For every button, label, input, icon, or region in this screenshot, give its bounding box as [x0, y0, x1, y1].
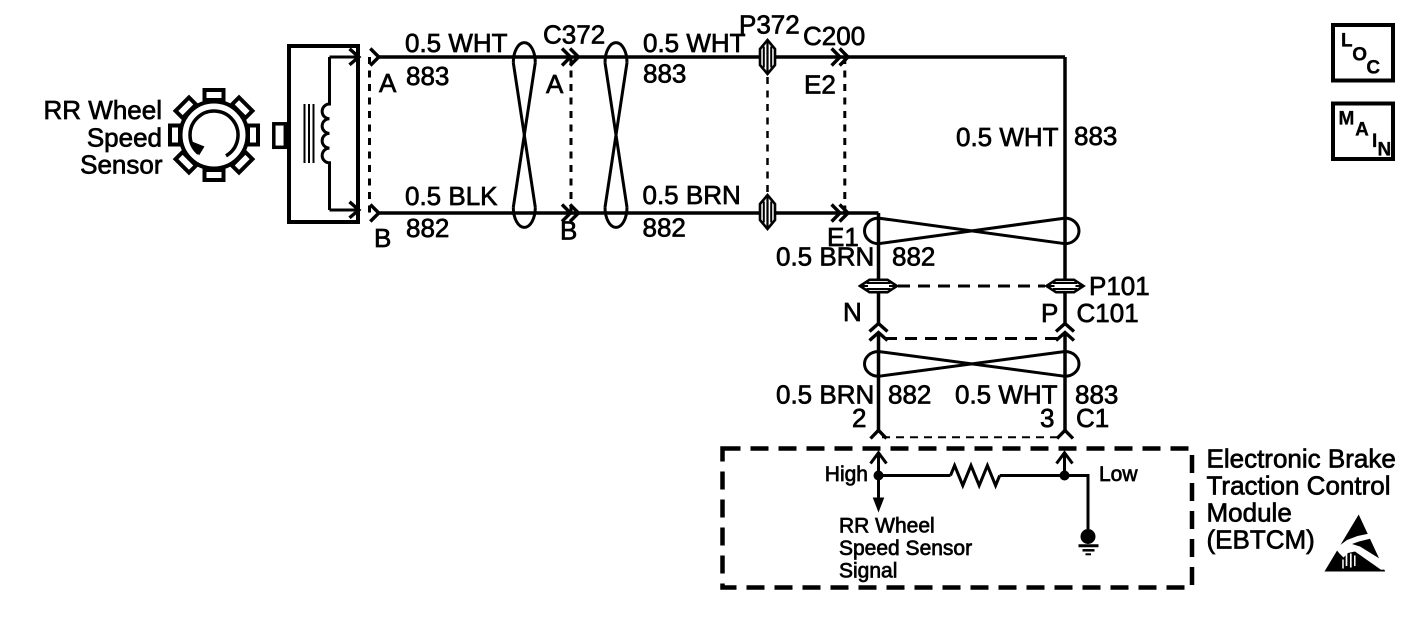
wire N to pin 2 — [877, 333, 881, 431]
svg-text:Sensor: Sensor — [80, 150, 163, 180]
twisted pair symbol 2 — [605, 43, 627, 228]
wire A: 0.5 WHT 883 — [379, 55, 1065, 59]
twisted pair symbol 4 (horizontal) — [865, 352, 1080, 377]
svg-text:882: 882 — [888, 380, 931, 410]
terminal N chevrons — [870, 324, 888, 341]
svg-text:B: B — [560, 216, 577, 246]
wire High to resistor — [879, 474, 951, 477]
svg-text:I: I — [1372, 131, 1377, 152]
terminal P chevrons — [1056, 324, 1074, 341]
ESD warning symbol — [1325, 515, 1390, 572]
wire below P101 right — [1063, 293, 1067, 324]
svg-text:P372: P372 — [739, 10, 800, 40]
svg-text:P: P — [1041, 298, 1058, 328]
svg-text:882: 882 — [892, 242, 935, 272]
wire B: 0.5 BLK 882 — [379, 211, 879, 215]
svg-text:E2: E2 — [804, 70, 836, 100]
connector C200 chevrons — [832, 49, 848, 66]
sensor connector tab — [274, 124, 286, 148]
svg-text:2: 2 — [852, 403, 866, 433]
svg-text:A: A — [379, 68, 397, 98]
coil winding — [322, 57, 329, 210]
connector P101 dashed line — [898, 285, 1045, 288]
coil bottom lead with arrow — [330, 202, 359, 218]
EBTCM pin 3 entry arrow — [1057, 453, 1073, 476]
terminal A chevron — [370, 49, 379, 66]
label Electronic Brake Traction Control Module (EBTCM) — [1207, 444, 1396, 555]
svg-text:N: N — [1378, 139, 1392, 160]
svg-text:Speed: Speed — [87, 123, 162, 153]
pin 3 chevron — [1057, 430, 1073, 438]
svg-text:N: N — [843, 297, 862, 327]
ground symbol — [1079, 529, 1099, 554]
wire P to pin 3 — [1063, 333, 1067, 431]
sensor tone ring (toothed wheel) — [170, 90, 258, 180]
wire: right vertical 0.5 WHT 883 — [1063, 57, 1067, 280]
EBTCM pin 2 entry arrow — [871, 453, 887, 476]
terminal B chevron — [370, 205, 379, 222]
wire Low to ground — [1065, 476, 1089, 530]
coil top lead with arrow — [330, 49, 359, 65]
svg-text:0.5 BLK: 0.5 BLK — [405, 181, 498, 211]
svg-text:Module: Module — [1207, 498, 1292, 528]
rotation arrow arc — [190, 111, 238, 156]
label RR Wheel Speed Sensor Signal — [839, 515, 972, 583]
dashed harness top line — [885, 337, 1058, 340]
RR Wheel Speed Sensor label — [44, 95, 163, 180]
svg-text:RR Wheel: RR Wheel — [839, 515, 935, 538]
dashed harness bottom line — [882, 436, 1061, 438]
svg-text:0.5 BRN: 0.5 BRN — [776, 242, 874, 272]
svg-text:0.5 WHT: 0.5 WHT — [643, 28, 746, 58]
svg-text:882: 882 — [643, 213, 686, 243]
wire: left vertical drop from E1 — [877, 213, 881, 280]
connector P372 dashed line — [766, 77, 769, 192]
connector C372 chevrons top — [562, 49, 579, 66]
pin 2 chevron — [871, 430, 887, 438]
node Low junction dot — [1060, 471, 1070, 481]
svg-text:Electronic Brake: Electronic Brake — [1207, 444, 1396, 474]
svg-text:Low: Low — [1099, 463, 1138, 486]
connector P101 left symbol — [860, 280, 897, 292]
svg-text:A: A — [546, 69, 564, 99]
twisted pair symbol 1 — [513, 43, 535, 228]
connector E1 chevrons — [832, 205, 848, 222]
svg-text:C: C — [1366, 57, 1380, 78]
svg-text:RR Wheel: RR Wheel — [44, 95, 162, 125]
svg-text:0.5 WHT: 0.5 WHT — [956, 122, 1059, 152]
sensor box — [289, 46, 358, 222]
svg-text:C372: C372 — [543, 20, 605, 50]
svg-text:C200: C200 — [803, 21, 865, 51]
twisted pair symbol 3 (horizontal) — [865, 218, 1080, 244]
wire resistor to Low — [1000, 474, 1065, 477]
svg-text:(EBTCM): (EBTCM) — [1207, 525, 1315, 555]
svg-text:O: O — [1352, 45, 1367, 66]
pass-through connector P372 top symbol — [760, 40, 775, 75]
svg-text:C101: C101 — [1077, 298, 1139, 328]
svg-text:L: L — [1341, 31, 1353, 52]
svg-text:883: 883 — [1074, 121, 1117, 151]
sensor connector dashed line — [368, 57, 371, 213]
svg-text:883: 883 — [406, 61, 449, 91]
connector C372 chevrons bottom — [562, 205, 579, 222]
rotation arrowhead — [192, 142, 205, 156]
EBTCM dashed box — [723, 449, 1193, 588]
svg-text:Speed Sensor: Speed Sensor — [839, 537, 972, 560]
svg-text:0.5 WHT: 0.5 WHT — [405, 28, 508, 58]
svg-text:0.5 BRN: 0.5 BRN — [643, 180, 741, 210]
svg-text:Signal: Signal — [839, 560, 897, 583]
svg-text:C1: C1 — [1076, 403, 1109, 433]
svg-text:M: M — [1339, 108, 1355, 129]
svg-text:A: A — [1355, 120, 1369, 141]
svg-text:High: High — [825, 463, 868, 486]
svg-text:B: B — [374, 223, 391, 253]
pass-through connector P372 bottom symbol — [760, 195, 775, 230]
svg-text:Traction Control: Traction Control — [1207, 471, 1391, 501]
coil core lines — [305, 104, 314, 163]
LOC box — [1333, 25, 1393, 81]
wire below P101 left — [877, 293, 881, 324]
MAIN box — [1333, 104, 1393, 161]
resistor (internal) — [951, 466, 1000, 486]
svg-text:882: 882 — [406, 213, 449, 243]
connector C200 dashed line — [843, 57, 846, 213]
svg-text:P101: P101 — [1089, 271, 1150, 301]
node High junction dot — [874, 471, 884, 481]
connector C372 dashed line — [570, 57, 573, 213]
svg-text:883: 883 — [643, 59, 686, 89]
svg-text:3: 3 — [1040, 403, 1054, 433]
signal down arrow — [873, 476, 885, 513]
connector P101 right symbol — [1047, 280, 1084, 292]
